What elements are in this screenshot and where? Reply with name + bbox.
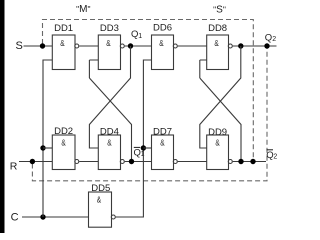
wire C input bbox=[22, 216, 89, 218]
wire DD3 out (Q1) to DD6 pin1 bbox=[125, 45, 152, 47]
gate DD6 bbox=[152, 35, 178, 70]
svg-text:DD3: DD3 bbox=[100, 23, 119, 34]
gate DD3 bbox=[98, 35, 124, 70]
svg-text:&: & bbox=[215, 137, 220, 147]
wire R input bbox=[19, 161, 52, 163]
svg-text:"M": "M" bbox=[76, 4, 90, 15]
left black edge bar bbox=[0, 0, 5, 233]
wire master cross diagonal (Q1 to DD4) bbox=[89, 46, 130, 148]
wire slave cross diagonal (Q2 to DD9) bbox=[200, 46, 241, 148]
svg-text:Q: Q bbox=[265, 32, 272, 43]
node Cbar/DD7 branch dot bbox=[141, 145, 146, 150]
wire DD5 out riser (Cbar) to DD6 pin2 bbox=[116, 60, 152, 217]
node Q1 dot bbox=[128, 43, 133, 48]
dashed master/slave boundary bbox=[43, 20, 254, 160]
gate DD7 bbox=[152, 135, 178, 170]
label Q2 bbox=[265, 32, 277, 43]
gate DD8 bbox=[207, 35, 233, 70]
gate DD5 bbox=[89, 192, 116, 227]
wire DD7 out to DD9 pin2 bbox=[178, 161, 207, 163]
gate DD9 bbox=[207, 135, 233, 170]
svg-text:DD4: DD4 bbox=[100, 126, 119, 137]
svg-text:&: & bbox=[60, 38, 65, 48]
svg-text:1: 1 bbox=[138, 33, 142, 40]
svg-text:DD8: DD8 bbox=[208, 23, 227, 34]
node Q2bar dot inner bbox=[238, 159, 243, 164]
wire S input bbox=[24, 45, 53, 47]
svg-text:&: & bbox=[97, 195, 102, 205]
wire DD8 out (Q2) bbox=[233, 45, 277, 47]
wire DD4 out (Q1bar) to DD7 pin2 bbox=[125, 161, 152, 163]
svg-text:1: 1 bbox=[141, 151, 145, 158]
wire branch to DD2 pin1 bbox=[43, 147, 52, 149]
gate DD2 bbox=[52, 135, 79, 170]
label Q1 bbox=[131, 29, 142, 40]
svg-text:DD7: DD7 bbox=[153, 126, 172, 137]
svg-text:&: & bbox=[106, 38, 111, 48]
svg-text:&: & bbox=[160, 137, 165, 147]
wire DD2 out to DD4 pin2 bbox=[79, 161, 98, 163]
svg-text:DD1: DD1 bbox=[54, 23, 73, 34]
wire C riser to DD1 pin2 and DD2 pin1 bbox=[43, 60, 52, 217]
wire master cross diagonal (Q1bar to DD3) bbox=[89, 78, 131, 162]
wire DD1 out to DD3 pin1 bbox=[79, 45, 98, 47]
dashed outer boundary bbox=[32, 48, 267, 181]
svg-text:DD6: DD6 bbox=[153, 23, 172, 34]
node R-boundary dot bbox=[30, 159, 35, 164]
wire DD3 pin2 feedback riser bbox=[89, 60, 98, 78]
svg-text:&: & bbox=[159, 38, 164, 48]
svg-text:DD2: DD2 bbox=[54, 126, 73, 137]
wire slave cross diagonal (Q2bar to DD8) bbox=[200, 78, 241, 162]
gate DD1 bbox=[52, 35, 79, 70]
gate DD4 bbox=[98, 135, 124, 170]
svg-text:2: 2 bbox=[272, 36, 276, 43]
svg-text:R: R bbox=[10, 161, 18, 173]
node Q2 dot inner bbox=[238, 43, 243, 48]
svg-text:&: & bbox=[107, 137, 112, 147]
wire branch to DD7 pin1 bbox=[143, 147, 151, 149]
svg-text:2: 2 bbox=[273, 154, 277, 161]
node Q2bar boundary dot bbox=[250, 159, 255, 164]
svg-text:C: C bbox=[11, 212, 19, 224]
node S-boundary dot bbox=[40, 43, 45, 48]
wire DD6 out to DD8 pin1 bbox=[178, 45, 207, 47]
node Q2 boundary dot bbox=[264, 43, 269, 48]
node C junction dot bbox=[40, 214, 45, 219]
svg-text:S: S bbox=[16, 40, 23, 52]
node Q1bar dot bbox=[129, 159, 134, 164]
svg-text:&: & bbox=[214, 38, 219, 48]
label Q2bar bbox=[266, 150, 277, 161]
svg-text:&: & bbox=[61, 137, 66, 147]
label Q1bar bbox=[134, 147, 145, 158]
svg-text:"S": "S" bbox=[213, 4, 226, 15]
node C/DD2 branch dot bbox=[40, 145, 45, 150]
wire DD8 pin2 feedback riser bbox=[200, 60, 207, 78]
wire DD9 out (Q2bar) bbox=[233, 161, 266, 163]
svg-text:DD9: DD9 bbox=[208, 127, 227, 138]
